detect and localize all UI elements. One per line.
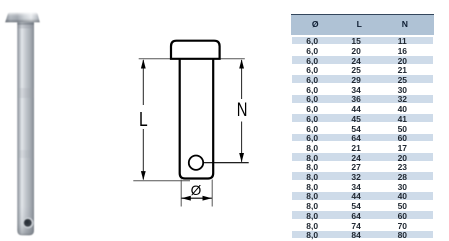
technical drawing bbox=[110, 30, 270, 220]
darker bottom tip bbox=[17, 206, 34, 235]
pin head bbox=[5, 13, 40, 23]
table header bbox=[291, 14, 434, 35]
extension line under head bbox=[139, 58, 245, 60]
svg-text:N: N bbox=[237, 99, 248, 120]
leader line from hole bbox=[204, 162, 249, 164]
N dimension line bbox=[241, 60, 243, 99]
diameter extension lines bbox=[180, 180, 182, 207]
L dimension line bbox=[142, 60, 144, 105]
hole circle bbox=[189, 156, 203, 170]
pin shaft bbox=[17, 22, 34, 235]
diameter dimension line bbox=[182, 197, 212, 199]
head outline bbox=[171, 41, 220, 59]
hole in shaft bbox=[23, 218, 34, 229]
faint streaks on shaft bbox=[17, 88, 34, 98]
shadow under head bbox=[17, 22, 34, 25]
dimensions table bbox=[291, 14, 434, 241]
shaft outline bbox=[180, 59, 214, 179]
svg-text:Ø: Ø bbox=[191, 183, 202, 198]
photo of clevis pin bbox=[0, 0, 60, 241]
svg-text:L: L bbox=[139, 108, 148, 130]
bottom extension line bbox=[133, 180, 190, 182]
